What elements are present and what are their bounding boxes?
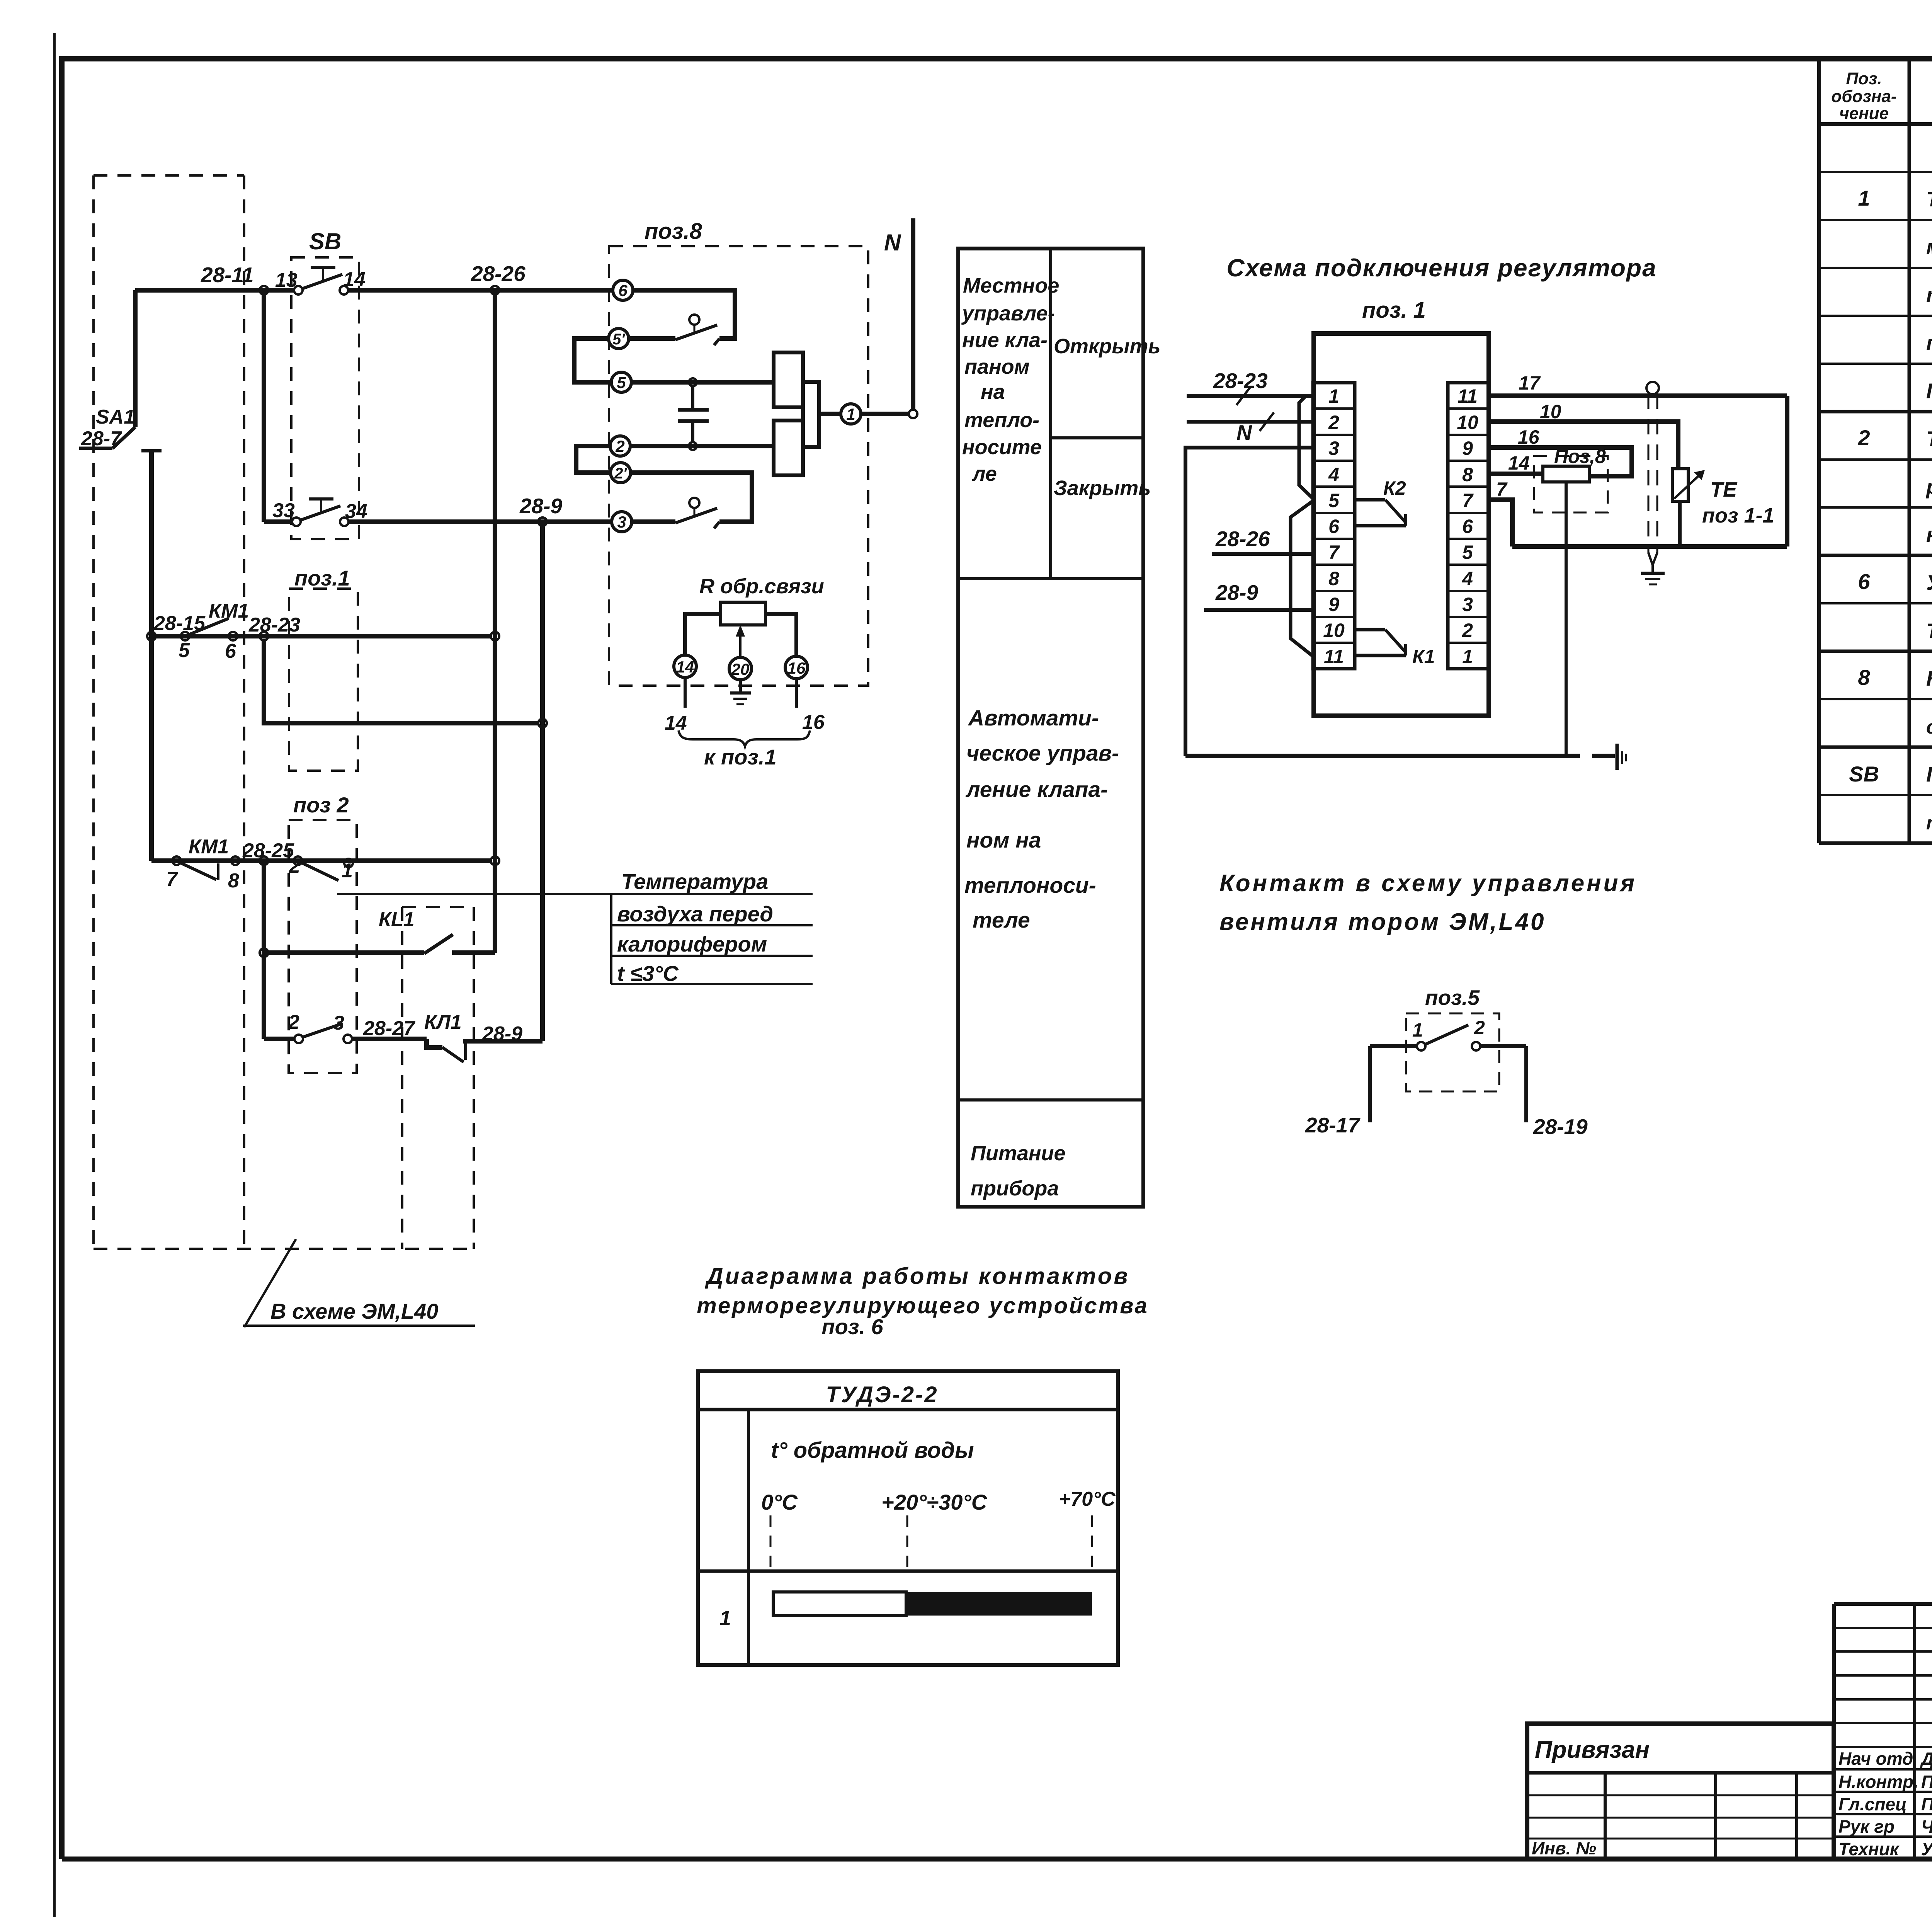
dashed box poz.5 — [1406, 1013, 1499, 1091]
contact K1 between terminals 10-11 — [1355, 630, 1435, 667]
feedback resistor R obr svyazi — [665, 575, 825, 769]
wire 28-23 to terminal 1 — [1187, 394, 1313, 398]
resistor wiper to ground bus — [1565, 482, 1568, 756]
svg-text:на: на — [981, 380, 1005, 403]
svg-text:Попов: Попов — [1921, 1794, 1932, 1814]
svg-text:поз.8: поз.8 — [645, 219, 702, 244]
wire 16 from terminal 9 to feedback resistor — [1489, 448, 1632, 476]
svg-text:Поз,8: Поз,8 — [1554, 446, 1606, 467]
svg-text:5': 5' — [612, 331, 625, 348]
pushbutton SB 13-14 — [275, 267, 366, 295]
jumper terminal 1 to 5 — [1299, 397, 1313, 499]
svg-text:28-23: 28-23 — [248, 614, 300, 636]
svg-text:ТЕ: ТЕ — [1710, 478, 1738, 501]
svg-text:28-9: 28-9 — [1215, 581, 1258, 604]
svg-text:воздуха перед: воздуха перед — [617, 902, 773, 926]
bottom wire of sensor loop — [1512, 544, 1787, 549]
svg-text:Закрыть: Закрыть — [1054, 477, 1151, 500]
svg-text:Температура: Температура — [621, 869, 768, 894]
wire 7 from terminal 7 — [1489, 500, 1512, 546]
svg-text:калорифером: калорифером — [617, 932, 767, 956]
svg-text:2: 2 — [615, 437, 624, 455]
svg-text:Контакт в схему управления: Контакт в схему управления — [1219, 870, 1637, 897]
svg-text:1: 1 — [846, 405, 855, 423]
svg-text:медный в комплекте с регуля: медный в комплекте с регулятором — [1926, 235, 1932, 259]
wire row KM1 / 28-23 — [151, 634, 491, 638]
svg-text:ле: ле — [971, 462, 997, 485]
svg-text:3: 3 — [1462, 594, 1473, 615]
svg-text:1: 1 — [1328, 385, 1339, 407]
svg-text:14: 14 — [1508, 452, 1530, 474]
wire row 28-11 — [135, 288, 294, 293]
svg-text:2: 2 — [288, 1011, 299, 1033]
svg-text:20: 20 — [731, 660, 750, 678]
svg-text:Устройство терморегулирующее: Устройство терморегулирующее — [1926, 570, 1932, 594]
jumper terminal 5 to 11 — [1291, 501, 1313, 656]
svg-text:+20°÷30°С: +20°÷30°С — [881, 1490, 988, 1514]
svg-text:17: 17 — [1519, 372, 1541, 394]
svg-text:прибора: прибора — [971, 1177, 1059, 1200]
upper limit switch — [629, 315, 719, 345]
svg-text:поз. 6: поз. 6 — [821, 1314, 883, 1339]
svg-text:SB: SB — [309, 228, 341, 254]
svg-text:Ушакова: Ушакова — [1921, 1839, 1932, 1859]
svg-text:2': 2' — [614, 465, 627, 482]
svg-text:поз.1: поз.1 — [294, 566, 350, 590]
svg-text:N: N — [1236, 421, 1252, 444]
svg-text:3: 3 — [333, 1012, 344, 1034]
svg-text:1: 1 — [1858, 186, 1870, 210]
svg-text:t° обратной воды: t° обратной воды — [771, 1438, 974, 1463]
svg-text:3: 3 — [617, 513, 626, 531]
svg-text:8: 8 — [1462, 464, 1473, 485]
svg-text:1: 1 — [719, 1607, 731, 1630]
svg-text:Долотов: Долотов — [1920, 1748, 1932, 1769]
svg-text:6: 6 — [1328, 516, 1340, 537]
wire 34 to terminal 3 — [349, 519, 612, 524]
svg-text:28-7: 28-7 — [81, 427, 122, 450]
svg-text:9: 9 — [1328, 594, 1339, 615]
wire loop terminal 6 to upper limit switch — [633, 290, 735, 339]
terminal 5' — [609, 329, 629, 349]
note V sheme EM,L40 — [243, 1239, 475, 1327]
svg-text:теле: теле — [973, 908, 1030, 933]
svg-text:терморегулирующего устройства: терморегулирующего устройства — [697, 1293, 1149, 1318]
svg-text:5: 5 — [1462, 541, 1473, 563]
terminal 1 — [841, 404, 861, 424]
svg-text:1: 1 — [1412, 1019, 1423, 1041]
wire 10 from terminal 10 to TE — [1489, 422, 1678, 469]
wire 14 from terminal 8 to feedback resistor — [1489, 472, 1543, 476]
svg-text:Инв. №: Инв. № — [1532, 1838, 1596, 1858]
svg-text:Термометр показывающий сигнали: Термометр показывающий сигнализи- — [1926, 427, 1932, 451]
svg-text:ние кла-: ние кла- — [962, 329, 1048, 352]
junction nodes overlay — [147, 286, 917, 957]
ground terminal symbol — [1592, 744, 1626, 770]
privyazan table — [1527, 1724, 1834, 1859]
svg-text:Местное: Местное — [963, 274, 1059, 297]
vertical 28-26 bus — [493, 290, 497, 953]
svg-text:КL1: КL1 — [379, 908, 415, 931]
svg-text:28-19: 28-19 — [1533, 1115, 1588, 1139]
svg-text:к поз.1: к поз.1 — [704, 745, 777, 769]
wire poz.1 output row — [264, 640, 538, 723]
dashed box poz.2 — [289, 820, 357, 1073]
svg-text:SA1: SA1 — [96, 406, 135, 428]
bottom row poz.2 contact 2-3 / KL1 — [264, 1011, 427, 1043]
spec table headers — [1831, 69, 1932, 123]
svg-text:28-15: 28-15 — [153, 612, 206, 635]
vertical 28-25 bus to bottom row — [262, 861, 266, 1039]
svg-text:ний -25 +35°С: ний -25 +35°С — [1926, 523, 1932, 546]
jumper 2-2' — [576, 446, 611, 473]
svg-text:8: 8 — [1328, 568, 1339, 589]
contact KM1 5-6 — [153, 600, 300, 662]
svg-text:0°С: 0°С — [761, 1490, 798, 1514]
svg-text:28-9: 28-9 — [482, 1023, 522, 1045]
svg-text:Поз.: Поз. — [1846, 69, 1882, 88]
vertical from SA1 lower contact — [141, 451, 162, 861]
capacitor — [678, 386, 709, 442]
svg-text:34: 34 — [345, 500, 367, 523]
svg-text:с исполнительным механизмом МЭ: с исполнительным механизмом МЭО-0,63 — [1926, 716, 1932, 738]
wire terminal 2 to motor — [630, 444, 774, 448]
svg-text:10: 10 — [1540, 401, 1561, 422]
svg-text:10: 10 — [1323, 620, 1345, 641]
svg-text:вентиля тором ЭМ,L40: вентиля тором ЭМ,L40 — [1219, 909, 1546, 935]
svg-text:паном: паном — [964, 355, 1030, 378]
actuator motor windings — [774, 352, 819, 475]
svg-text:6: 6 — [618, 281, 628, 300]
svg-text:Открыть: Открыть — [1054, 335, 1161, 358]
contact poz.5 — [1305, 1017, 1588, 1139]
wire 28-11 node down to SB 33 — [262, 290, 266, 522]
svg-text:16: 16 — [787, 659, 806, 677]
svg-text:28-26: 28-26 — [471, 262, 526, 286]
node 28-26 — [491, 286, 499, 295]
wire terminal 3 to ground bus — [1185, 448, 1313, 756]
svg-text:14: 14 — [676, 658, 694, 676]
spec rows: position designators — [1849, 186, 1879, 786]
contact KL1 in bottom row — [424, 1011, 543, 1062]
wire 17 right side down — [1785, 396, 1789, 546]
svg-text:носите: носите — [962, 436, 1042, 459]
svg-text:теля ПКЕ-212-2У3-3/4"ТУ15-6420: теля ПКЕ-212-2У3-3/4"ТУ15-642006-83 — [1926, 813, 1932, 834]
vertical 28-9 bus — [540, 522, 545, 1041]
terminal 2 — [610, 436, 630, 456]
svg-text:Диаграмма работы контактов: Диаграмма работы контактов — [704, 1263, 1129, 1289]
wire N vertical — [911, 218, 915, 410]
svg-text:28-23: 28-23 — [1213, 369, 1268, 393]
svg-text:2: 2 — [1462, 620, 1473, 641]
wire 14 to terminal 6 — [348, 288, 613, 293]
wire 28-9 to terminal 9 — [1204, 608, 1313, 612]
svg-text:КЛ1: КЛ1 — [424, 1011, 462, 1033]
svg-text:тепло-: тепло- — [964, 409, 1039, 432]
svg-text:6: 6 — [1462, 516, 1473, 537]
svg-text:Гл.спец: Гл.спец — [1838, 1794, 1907, 1814]
contact poz.2 thermostat 2-1 — [289, 855, 353, 882]
svg-text:5: 5 — [179, 639, 190, 662]
node 28-9 — [538, 518, 547, 526]
svg-text:28-27: 28-27 — [363, 1017, 415, 1040]
svg-text:чение: чение — [1839, 104, 1889, 123]
wire motor to terminal 1 — [819, 412, 841, 416]
svg-text:ческое управ-: ческое управ- — [966, 741, 1119, 766]
svg-text:Привязан: Привязан — [1535, 1737, 1650, 1763]
svg-text:+70°С: +70°С — [1059, 1488, 1116, 1510]
svg-text:16: 16 — [802, 711, 825, 734]
svg-text:1: 1 — [342, 860, 353, 882]
feedback resistor Poz.8 — [1543, 466, 1589, 482]
svg-text:28-9: 28-9 — [519, 494, 562, 518]
temperature note callout — [337, 869, 813, 986]
svg-text:КМ1: КМ1 — [209, 600, 249, 622]
svg-text:поз. 1: поз. 1 — [1362, 298, 1426, 323]
lower limit switch — [632, 498, 719, 528]
regulator outline box — [1314, 334, 1489, 716]
terminal 5 — [611, 372, 631, 392]
dashed enclosure SA1 cabinet — [94, 175, 244, 1249]
svg-text:Чубова: Чубова — [1921, 1817, 1932, 1837]
svg-text:R обр.связи: R обр.связи — [699, 575, 824, 598]
svg-text:3: 3 — [1328, 438, 1339, 459]
jumper 5'-5 — [574, 339, 611, 382]
svg-text:температуры электрическим: температуры электрическим — [1926, 283, 1932, 307]
svg-text:В схеме ЭМ,L40: В схеме ЭМ,L40 — [270, 1299, 438, 1323]
svg-text:ление клапа-: ление клапа- — [965, 777, 1108, 802]
dashed box poz.8 actuator — [609, 246, 868, 686]
svg-text:7: 7 — [1496, 478, 1508, 500]
svg-text:ном на: ном на — [966, 828, 1041, 853]
svg-text:28-11: 28-11 — [201, 263, 254, 287]
wire terminal 5 to motor — [631, 380, 774, 385]
svg-text:2: 2 — [289, 855, 300, 877]
pushbutton SB 33-34 — [272, 499, 367, 526]
svg-text:6: 6 — [1858, 569, 1870, 594]
svg-text:Рук гр: Рук гр — [1838, 1817, 1895, 1837]
svg-text:Техник: Техник — [1838, 1839, 1900, 1859]
ground bus wire — [1185, 754, 1580, 758]
svg-text:33: 33 — [272, 499, 295, 522]
contact K2 between terminals 5-6 — [1355, 477, 1406, 526]
svg-text:14: 14 — [665, 712, 687, 734]
wire loop terminal 2' to lower limit switch — [631, 473, 752, 522]
wire row 33-34 — [264, 519, 293, 524]
svg-text:обозна-: обозна- — [1831, 87, 1896, 106]
thermowell — [1641, 382, 1665, 584]
svg-text:Автомати-: Автомати- — [968, 706, 1099, 730]
svg-text:N: N — [884, 230, 901, 255]
svg-text:КМ1: КМ1 — [189, 836, 229, 858]
svg-text:2: 2 — [1857, 426, 1870, 450]
svg-text:5: 5 — [1328, 490, 1340, 511]
svg-text:ТУДЭ-2-2: ТУДЭ-2-2 — [826, 1382, 938, 1407]
svg-text:К1: К1 — [1412, 646, 1435, 667]
signature table — [1834, 1604, 1932, 1859]
svg-text:К2: К2 — [1383, 477, 1406, 499]
svg-text:Схема подключения регулятора: Схема подключения регулятора — [1226, 254, 1656, 282]
svg-text:2: 2 — [1474, 1017, 1485, 1039]
chart table — [698, 1371, 1118, 1665]
wire 28-26 to terminal 7 — [1212, 552, 1313, 556]
terminal 6 of poz.8 — [613, 280, 633, 300]
svg-text:8: 8 — [1858, 665, 1870, 690]
contact KL1 row — [264, 908, 495, 953]
spec table grid — [1819, 61, 1932, 843]
terminal 2' — [611, 463, 631, 483]
svg-text:11: 11 — [1458, 385, 1478, 407]
dashed enclosure KL1 device — [402, 907, 474, 1249]
svg-text:Пост управления кнопочный, 2то: Пост управления кнопочный, 2толка- — [1926, 762, 1932, 786]
svg-text:поз 2: поз 2 — [293, 793, 349, 817]
svg-text:Клапан регулирующий 25ч939нж: Клапан регулирующий 25ч939нж — [1926, 666, 1932, 690]
svg-text:теплоноси-: теплоноси- — [964, 873, 1096, 898]
svg-text:Пределы регулирования 0-40°С: Пределы регулирования 0-40°С — [1926, 379, 1932, 403]
svg-text:10: 10 — [1457, 412, 1478, 433]
switch SA1 — [79, 290, 135, 450]
svg-text:28-17: 28-17 — [1305, 1113, 1361, 1137]
svg-text:пропорциональным ТЭ2П: пропорциональным ТЭ2П — [1926, 331, 1932, 355]
svg-text:t ≤3°С: t ≤3°С — [617, 961, 679, 986]
svg-text:16: 16 — [1518, 426, 1540, 448]
node 28-11 — [260, 286, 268, 295]
svg-text:6: 6 — [225, 640, 236, 662]
terminal 3 — [612, 512, 632, 532]
svg-text:Питание: Питание — [971, 1142, 1066, 1165]
svg-text:11: 11 — [1324, 646, 1344, 667]
TE sensor element — [1672, 469, 1774, 546]
wire terminal 1 to N — [861, 412, 909, 416]
svg-text:Нач отд: Нач отд — [1838, 1748, 1913, 1769]
trim mark thin line left — [53, 33, 56, 1917]
svg-text:1: 1 — [1462, 646, 1473, 667]
svg-text:28-26: 28-26 — [1215, 527, 1270, 551]
dashed box poz.1 — [289, 589, 358, 771]
contact KM1 7-8 — [166, 836, 294, 892]
svg-text:поз 1-1: поз 1-1 — [1702, 504, 1774, 527]
svg-text:4: 4 — [1462, 568, 1473, 589]
svg-text:Н.контр.: Н.контр. — [1838, 1772, 1918, 1792]
svg-text:Термопреобразователь сопротивл: Термопреобразователь сопротивления — [1926, 187, 1932, 211]
svg-text:7: 7 — [166, 868, 178, 890]
wire N to terminal 2 — [1187, 420, 1313, 424]
dashed box SB — [291, 257, 359, 539]
spec rows: names — [1925, 138, 1932, 834]
right terminal strip 11-1 — [1448, 383, 1489, 669]
svg-text:7: 7 — [1462, 490, 1474, 511]
svg-text:5: 5 — [617, 373, 626, 392]
svg-text:8: 8 — [228, 870, 239, 892]
wire 17 from terminal 11 — [1489, 393, 1787, 398]
svg-text:SB: SB — [1849, 762, 1879, 786]
left terminal strip 1-11 — [1313, 383, 1355, 669]
svg-text:рующий ТКП-100ЭК Пределы измер: рующий ТКП-100ЭК Пределы измере- — [1925, 475, 1932, 499]
svg-text:14: 14 — [343, 268, 366, 291]
svg-text:7: 7 — [1328, 541, 1340, 563]
svg-text:поз.5: поз.5 — [1425, 986, 1480, 1010]
svg-text:13: 13 — [275, 269, 298, 291]
dashed box Poz.8 — [1534, 456, 1608, 512]
svg-text:Попов: Попов — [1921, 1772, 1932, 1792]
svg-text:ТУДЭ-2-2 Пределы измерений 0-1: ТУДЭ-2-2 Пределы измерений 0-100°С — [1926, 620, 1932, 642]
svg-text:4: 4 — [1328, 464, 1339, 485]
svg-text:управле-: управле- — [961, 302, 1055, 325]
svg-text:2: 2 — [1328, 412, 1339, 433]
wire row KM1 7-8 / 28-25 / poz.2 — [151, 858, 491, 863]
dashed bottom edge of enclosures — [94, 1248, 474, 1250]
svg-text:9: 9 — [1462, 438, 1473, 459]
